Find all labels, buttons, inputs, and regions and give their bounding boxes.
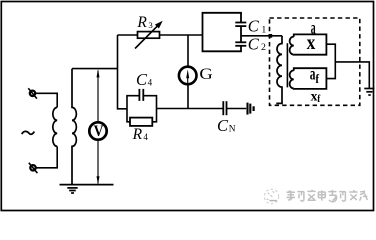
wire R3 left lead xyxy=(118,34,138,36)
wire secondary top to R3 branch xyxy=(72,68,118,70)
main wire C4 block to CN xyxy=(157,108,223,110)
connector plug J1 xyxy=(248,103,254,115)
capacitor C2 xyxy=(235,42,246,46)
svg-text:C: C xyxy=(217,116,229,135)
wire terminal P2 to left winding xyxy=(36,146,57,167)
dashed enclosure box xyxy=(270,18,360,105)
PT secondary winding a-x xyxy=(290,34,327,54)
svg-text:f: f xyxy=(315,72,319,86)
galvanometer G xyxy=(179,67,197,85)
capacitor C4 xyxy=(139,89,143,101)
AC source symbol ~ xyxy=(22,131,35,134)
transformer T1 secondary winding xyxy=(72,69,76,185)
wire CN to connector xyxy=(227,108,246,110)
svg-text:2: 2 xyxy=(261,42,266,53)
svg-text:V: V xyxy=(94,122,104,140)
capacitive divider box U1 xyxy=(203,13,242,52)
PT auxiliary winding af-xf xyxy=(290,68,327,89)
svg-text:3: 3 xyxy=(148,20,153,30)
svg-text:R: R xyxy=(136,14,147,31)
svg-text:G: G xyxy=(199,66,212,83)
ground right xyxy=(364,89,374,96)
galvanometer branch wire upper xyxy=(187,35,189,67)
svg-text:1: 1 xyxy=(261,24,266,35)
transformer core xyxy=(286,43,288,87)
PT primary winding xyxy=(276,36,282,104)
watermark text xyxy=(287,190,368,202)
terminal P1 (upper probe) xyxy=(28,88,37,98)
ground left xyxy=(67,188,77,193)
transformer T1 primary winding xyxy=(53,107,57,146)
voltmeter measuring line top arrow xyxy=(97,69,100,122)
watermark logo xyxy=(264,189,278,203)
C4/R4 parallel loop wires xyxy=(127,96,157,122)
node junction dot xyxy=(269,34,273,38)
secondary common wires xyxy=(326,44,369,88)
capacitor CN xyxy=(223,101,226,115)
svg-text:C: C xyxy=(248,17,260,36)
wire divider to PT primary xyxy=(241,35,282,37)
svg-text:N: N xyxy=(229,125,236,135)
capacitor C1 xyxy=(235,23,246,27)
svg-text:R: R xyxy=(132,126,143,143)
resistor R4 xyxy=(130,118,152,126)
svg-text:f: f xyxy=(317,94,321,105)
svg-text:x: x xyxy=(307,32,316,54)
voltmeter measuring line bottom arrow xyxy=(97,140,100,185)
wire R3 to divider box xyxy=(160,34,203,36)
wire terminal P1 to left winding xyxy=(36,93,58,107)
svg-text:C: C xyxy=(136,70,148,89)
voltmeter V xyxy=(89,122,106,140)
bottom ground rail xyxy=(60,184,114,186)
wire vertical node to R3 and C4 xyxy=(118,35,128,109)
terminal P2 (lower probe) xyxy=(29,163,38,173)
resistor R3 (variable) xyxy=(135,21,163,49)
galvanometer branch wire lower xyxy=(187,84,189,108)
svg-text:C: C xyxy=(248,34,260,53)
svg-text:4: 4 xyxy=(148,77,153,87)
svg-text:4: 4 xyxy=(143,132,148,142)
